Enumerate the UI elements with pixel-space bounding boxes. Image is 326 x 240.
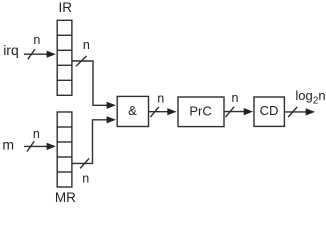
- svg-text:&: &: [128, 103, 137, 118]
- svg-text:n: n: [157, 92, 164, 106]
- svg-text:PrC: PrC: [189, 103, 211, 118]
- svg-text:n: n: [83, 38, 90, 52]
- svg-text:IR: IR: [59, 0, 73, 15]
- svg-text:n: n: [82, 171, 89, 185]
- svg-text:n: n: [232, 91, 239, 105]
- svg-text:n: n: [33, 127, 40, 141]
- svg-text:log2n: log2n: [295, 88, 325, 106]
- svg-text:irq: irq: [3, 42, 19, 58]
- svg-text:CD: CD: [260, 103, 279, 118]
- svg-text:n: n: [33, 33, 40, 47]
- svg-text:MR: MR: [55, 190, 76, 205]
- svg-text:m: m: [2, 137, 14, 153]
